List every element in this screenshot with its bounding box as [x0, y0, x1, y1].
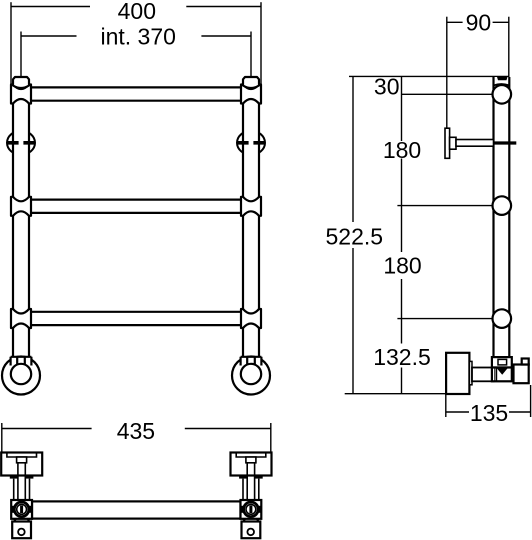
side cap top bar	[497, 77, 508, 80]
valve: right cap square	[522, 359, 529, 365]
triangles	[13, 519, 31, 522]
left bottom bracket	[1, 453, 42, 539]
shoulders	[10, 476, 18, 479]
valve: right body	[514, 365, 529, 384]
wall bracket side: arm	[456, 140, 494, 147]
tee fitting rung2 right	[241, 197, 261, 216]
top line	[349, 75, 509, 77]
valve: body inner lines	[495, 368, 497, 382]
valve: body	[492, 368, 512, 382]
dim 400 ext right	[260, 2, 262, 84]
right bottom bracket	[231, 453, 272, 539]
svg-text:522.5: 522.5	[326, 224, 384, 250]
tick rung1 (30)	[402, 93, 493, 95]
block	[231, 453, 272, 476]
plate	[12, 522, 31, 539]
side rung circle 3	[493, 309, 512, 328]
tee fitting rung3 right	[241, 309, 261, 328]
plate hole	[18, 529, 25, 536]
svg-text:435: 435	[117, 418, 155, 444]
svg-text:90: 90	[466, 10, 492, 36]
rung bar 3	[31, 312, 241, 325]
wall bracket circle right	[237, 131, 265, 155]
tab	[246, 457, 256, 463]
fitting dark wedges	[241, 506, 243, 513]
dim 400 ext left	[10, 2, 12, 84]
rung bar 1	[31, 87, 241, 100]
block	[1, 453, 42, 476]
side tube	[494, 77, 510, 357]
svg-text:135: 135	[470, 400, 508, 426]
dim 400 line	[11, 6, 261, 8]
valve: nut inner	[498, 359, 507, 365]
left tube	[13, 84, 29, 357]
side cap dome line	[494, 84, 510, 86]
valve: body V detail	[497, 369, 507, 375]
svg-text:132.5: 132.5	[373, 344, 431, 370]
svg-text:180: 180	[383, 253, 421, 279]
block lip	[7, 453, 37, 458]
valve: nut	[492, 357, 512, 367]
tick rung2	[397, 205, 492, 207]
valve: block flange	[469, 361, 472, 384]
triangles	[242, 519, 260, 522]
block lip	[236, 453, 266, 458]
svg-text:400: 400	[118, 0, 156, 24]
wall bracket circle left	[7, 131, 35, 155]
fitting square	[11, 500, 32, 519]
floor mount right	[232, 357, 270, 395]
side rung circle 2	[493, 196, 512, 215]
wall bracket side: pin through tube	[494, 141, 517, 144]
fitting inner circle	[17, 504, 27, 514]
dim int.370 ext left	[20, 32, 22, 78]
plate	[242, 522, 261, 539]
rods	[243, 479, 259, 500]
right tube	[243, 84, 259, 357]
valve: floor block	[446, 353, 469, 394]
tee fitting rung3 left	[11, 309, 31, 328]
dim 90	[447, 17, 509, 129]
dim 135	[446, 385, 531, 417]
dim int.370 line	[21, 35, 251, 37]
bottom floor line	[345, 393, 453, 395]
bottom bar	[32, 501, 241, 518]
svg-text:180: 180	[383, 137, 421, 163]
svg-text:30: 30	[374, 74, 400, 100]
valve: pipe	[472, 368, 494, 382]
fitting square	[241, 500, 262, 519]
stem	[18, 463, 25, 500]
wall bracket dashes left	[7, 141, 35, 145]
wall bracket side: block	[450, 137, 456, 149]
dim 435	[2, 423, 271, 453]
fitting outer circle	[14, 502, 29, 517]
svg-text:int. 370: int. 370	[100, 24, 175, 50]
rods	[14, 479, 30, 500]
stem	[247, 463, 254, 500]
fitting inner circle	[246, 504, 256, 514]
dim int.370 ext right	[250, 32, 252, 78]
side rung circle 1	[493, 85, 512, 104]
tab	[17, 457, 27, 463]
rung bar 2	[31, 200, 241, 213]
fitting outer circle	[244, 502, 259, 517]
floor mount left	[2, 357, 40, 395]
dim chain vertical 522.5 line	[352, 76, 354, 393]
wall bracket dashes right	[237, 141, 265, 145]
wall bracket side: plate	[445, 128, 450, 158]
tee fitting rung2 left	[11, 197, 31, 216]
tee fitting rung1 right + cap	[241, 77, 261, 104]
fitting screw slot	[20, 506, 23, 513]
plate hole	[247, 529, 254, 536]
tick rung3	[397, 318, 492, 320]
fitting dark wedges	[12, 506, 14, 513]
shoulders	[239, 476, 247, 479]
fitting screw slot	[249, 506, 252, 513]
tee fitting rung1 left + cap	[11, 77, 31, 104]
dim chain line x=401.5	[401, 76, 403, 393]
